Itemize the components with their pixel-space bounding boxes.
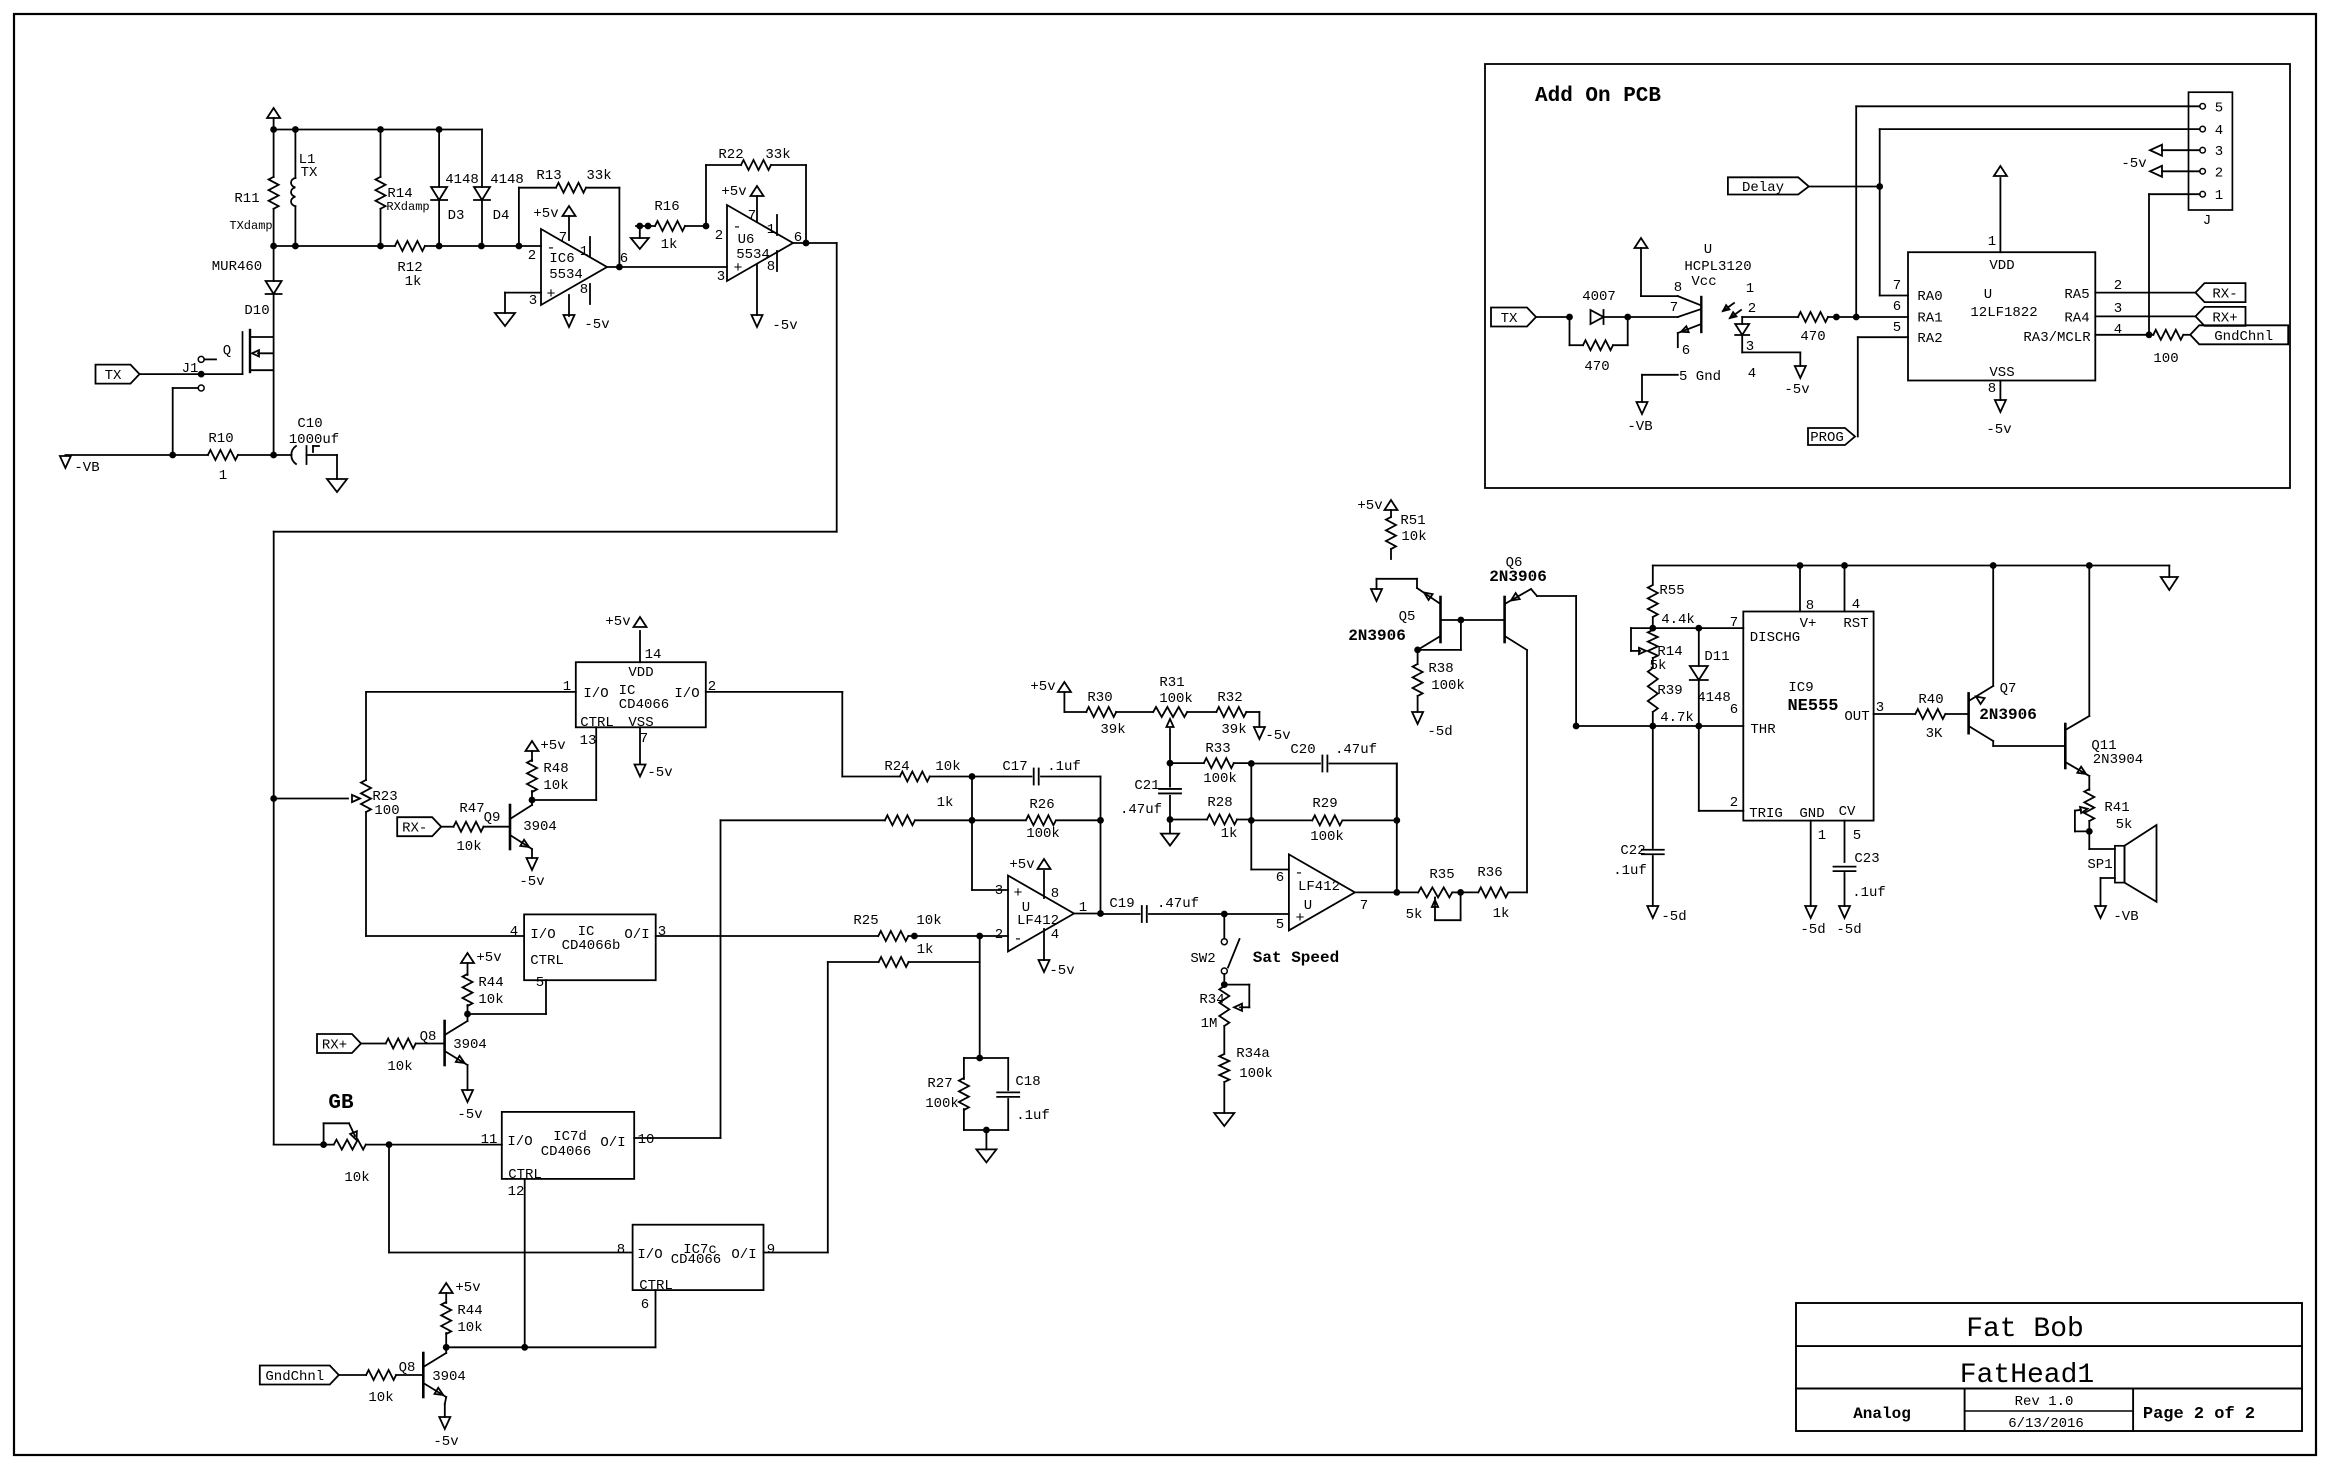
svg-text:33k: 33k xyxy=(586,168,611,184)
svg-text:I/O: I/O xyxy=(530,927,555,943)
svg-text:VSS: VSS xyxy=(1989,365,2014,381)
svg-text:GB: GB xyxy=(328,1092,354,1115)
svg-text:1: 1 xyxy=(580,244,588,260)
svg-text:1k: 1k xyxy=(405,274,422,290)
svg-text:Vcc: Vcc xyxy=(1691,274,1716,290)
svg-text:U: U xyxy=(1304,898,1312,914)
svg-text:R31: R31 xyxy=(1159,675,1184,691)
svg-text:RA4: RA4 xyxy=(2064,311,2089,327)
svg-text:CD4066: CD4066 xyxy=(671,1252,721,1268)
svg-text:6/13/2016: 6/13/2016 xyxy=(2008,1416,2084,1432)
svg-text:THR: THR xyxy=(1750,722,1776,738)
svg-text:10k: 10k xyxy=(387,1059,412,1075)
svg-text:O/I: O/I xyxy=(600,1135,625,1151)
svg-text:7: 7 xyxy=(559,230,567,246)
svg-text:-VB: -VB xyxy=(74,460,99,476)
svg-text:5534: 5534 xyxy=(736,247,770,263)
svg-text:9: 9 xyxy=(767,1242,775,1258)
svg-text:4148: 4148 xyxy=(1697,690,1731,706)
svg-text:Delay: Delay xyxy=(1742,180,1784,196)
svg-text:+: + xyxy=(546,286,555,303)
svg-text:RA0: RA0 xyxy=(1917,289,1942,305)
svg-text:SW2: SW2 xyxy=(1190,951,1215,967)
svg-text:5: 5 xyxy=(1853,828,1861,844)
svg-text:5: 5 xyxy=(2215,100,2223,116)
svg-text:100k: 100k xyxy=(1203,771,1237,787)
svg-text:.47uf: .47uf xyxy=(1120,802,1162,818)
svg-text:4148: 4148 xyxy=(445,172,479,188)
svg-text:4: 4 xyxy=(1852,597,1860,613)
svg-text:-: - xyxy=(1013,931,1022,948)
svg-text:C18: C18 xyxy=(1015,1074,1040,1090)
svg-text:4007: 4007 xyxy=(1582,289,1616,305)
svg-text:-5d: -5d xyxy=(1661,909,1686,925)
svg-text:C19: C19 xyxy=(1109,896,1134,912)
svg-text:8: 8 xyxy=(580,282,588,298)
svg-text:3904: 3904 xyxy=(523,819,557,835)
svg-text:470: 470 xyxy=(1800,329,1825,345)
svg-text:2: 2 xyxy=(2114,278,2122,294)
svg-text:100k: 100k xyxy=(1026,826,1060,842)
svg-text:R51: R51 xyxy=(1400,513,1425,529)
svg-text:R29: R29 xyxy=(1312,796,1337,812)
svg-text:2: 2 xyxy=(995,927,1003,943)
svg-text:TRIG: TRIG xyxy=(1749,806,1783,822)
svg-text:6: 6 xyxy=(1276,870,1284,886)
svg-text:10k: 10k xyxy=(543,778,568,794)
svg-text:5: 5 xyxy=(536,975,544,991)
svg-text:-5v: -5v xyxy=(772,318,797,334)
svg-text:-5v: -5v xyxy=(584,317,609,333)
svg-text:100: 100 xyxy=(2153,351,2178,367)
svg-text:+5v: +5v xyxy=(455,1280,480,1296)
svg-text:R27: R27 xyxy=(927,1076,952,1092)
svg-text:+5v: +5v xyxy=(540,738,565,754)
svg-text:100k: 100k xyxy=(1239,1066,1273,1082)
svg-text:RA5: RA5 xyxy=(2064,287,2089,303)
svg-text:5k: 5k xyxy=(1406,907,1423,923)
svg-text:470: 470 xyxy=(1584,359,1609,375)
svg-text:1k: 1k xyxy=(937,795,954,811)
svg-text:R35: R35 xyxy=(1429,867,1454,883)
svg-text:100k: 100k xyxy=(925,1096,959,1112)
svg-text:4.4k: 4.4k xyxy=(1661,612,1695,628)
svg-text:10k: 10k xyxy=(456,839,481,855)
svg-text:C23: C23 xyxy=(1854,851,1879,867)
svg-text:3: 3 xyxy=(2114,301,2122,317)
svg-text:Add On PCB: Add On PCB xyxy=(1535,85,1661,108)
svg-text:.47uf: .47uf xyxy=(1335,742,1377,758)
svg-text:-5v: -5v xyxy=(457,1107,482,1123)
svg-text:GND: GND xyxy=(1799,806,1824,822)
svg-text:2: 2 xyxy=(2215,165,2223,181)
svg-text:10k: 10k xyxy=(478,992,503,1008)
svg-text:D11: D11 xyxy=(1704,649,1729,665)
svg-text:HCPL3120: HCPL3120 xyxy=(1684,259,1751,275)
svg-text:7: 7 xyxy=(1360,898,1368,914)
svg-text:5534: 5534 xyxy=(549,267,583,283)
svg-text:V+: V+ xyxy=(1800,616,1817,632)
svg-text:-5v: -5v xyxy=(519,874,544,890)
svg-text:+5v: +5v xyxy=(605,614,630,630)
svg-text:Q5: Q5 xyxy=(1399,609,1416,625)
svg-text:R13: R13 xyxy=(536,168,561,184)
svg-text:3: 3 xyxy=(717,269,725,285)
svg-text:CV: CV xyxy=(1839,804,1856,820)
svg-text:7: 7 xyxy=(1893,278,1901,294)
svg-text:3: 3 xyxy=(658,924,666,940)
svg-text:5 Gnd: 5 Gnd xyxy=(1679,369,1721,385)
svg-text:2N3904: 2N3904 xyxy=(2093,752,2143,768)
svg-text:RA2: RA2 xyxy=(1917,331,1942,347)
svg-text:4: 4 xyxy=(510,924,518,940)
svg-text:I/O: I/O xyxy=(674,686,699,702)
svg-text:12LF1822: 12LF1822 xyxy=(1970,305,2037,321)
svg-text:Analog: Analog xyxy=(1853,1405,1911,1423)
svg-text:+5v: +5v xyxy=(1357,498,1382,514)
svg-text:8: 8 xyxy=(1051,886,1059,902)
svg-text:TX: TX xyxy=(1501,311,1518,327)
svg-text:1k: 1k xyxy=(661,237,678,253)
svg-text:6: 6 xyxy=(1730,702,1738,718)
svg-text:I/O: I/O xyxy=(507,1134,532,1150)
svg-text:RX+: RX+ xyxy=(2212,310,2237,326)
svg-text:13: 13 xyxy=(580,733,597,749)
svg-text:+5v: +5v xyxy=(721,184,746,200)
svg-text:Q9: Q9 xyxy=(484,810,501,826)
svg-text:2: 2 xyxy=(715,228,723,244)
svg-text:4: 4 xyxy=(1051,927,1059,943)
svg-text:VDD: VDD xyxy=(1989,258,2014,274)
svg-text:1: 1 xyxy=(767,222,775,238)
svg-text:C21: C21 xyxy=(1134,778,1159,794)
svg-text:C10: C10 xyxy=(297,416,322,432)
svg-text:1: 1 xyxy=(1746,281,1754,297)
svg-text:R41: R41 xyxy=(2104,800,2129,816)
svg-text:1k: 1k xyxy=(1221,826,1238,842)
svg-text:R16: R16 xyxy=(654,199,679,215)
svg-text:2N3906: 2N3906 xyxy=(1489,568,1547,586)
svg-text:2N3906: 2N3906 xyxy=(1348,627,1406,645)
svg-text:RXdamp: RXdamp xyxy=(386,200,429,214)
svg-text:10k: 10k xyxy=(344,1170,369,1186)
svg-text:R36: R36 xyxy=(1477,865,1502,881)
svg-text:-VB: -VB xyxy=(2113,909,2138,925)
svg-text:4: 4 xyxy=(2215,123,2223,139)
svg-text:2N3906: 2N3906 xyxy=(1979,706,2037,724)
svg-text:RX+: RX+ xyxy=(322,1038,347,1054)
svg-text:R11: R11 xyxy=(234,191,259,207)
svg-text:RST: RST xyxy=(1843,616,1868,632)
svg-text:CD4066b: CD4066b xyxy=(562,938,621,954)
svg-text:RX-: RX- xyxy=(2212,287,2237,303)
svg-text:+5v: +5v xyxy=(476,950,501,966)
svg-text:Sat Speed: Sat Speed xyxy=(1253,949,1339,967)
svg-text:TXdamp: TXdamp xyxy=(229,219,272,233)
svg-text:14: 14 xyxy=(645,647,662,663)
svg-text:33k: 33k xyxy=(765,147,790,163)
svg-text:R39: R39 xyxy=(1657,683,1682,699)
svg-text:7: 7 xyxy=(1670,300,1678,316)
svg-text:-5v: -5v xyxy=(1784,382,1809,398)
svg-text:1: 1 xyxy=(1818,828,1826,844)
svg-text:3: 3 xyxy=(2215,144,2223,160)
svg-text:-5v: -5v xyxy=(1986,422,2011,438)
svg-text:RX-: RX- xyxy=(402,821,427,837)
svg-text:C17: C17 xyxy=(1002,759,1027,775)
svg-text:C22: C22 xyxy=(1620,843,1645,859)
svg-text:R40: R40 xyxy=(1918,692,1943,708)
svg-text:TX: TX xyxy=(105,368,122,384)
svg-text:TX: TX xyxy=(301,165,318,181)
svg-text:5k: 5k xyxy=(2116,817,2133,833)
svg-text:GndChnl: GndChnl xyxy=(2214,329,2273,345)
svg-text:2: 2 xyxy=(1748,301,1756,317)
svg-text:10k: 10k xyxy=(457,1320,482,1336)
svg-text:R44: R44 xyxy=(478,975,503,991)
svg-text:6: 6 xyxy=(641,1297,649,1313)
svg-text:VSS: VSS xyxy=(628,715,653,731)
svg-text:PROG: PROG xyxy=(1810,430,1844,446)
svg-text:100k: 100k xyxy=(1159,691,1193,707)
svg-text:R38: R38 xyxy=(1428,661,1453,677)
svg-text:.47uf: .47uf xyxy=(1157,896,1199,912)
svg-text:8: 8 xyxy=(1674,280,1682,296)
svg-text:Q8: Q8 xyxy=(399,1360,416,1376)
svg-text:.1uf: .1uf xyxy=(1047,759,1081,775)
svg-text:R28: R28 xyxy=(1207,795,1232,811)
svg-text:CTRL: CTRL xyxy=(530,953,564,969)
svg-text:8: 8 xyxy=(1988,381,1996,397)
svg-text:1000uf: 1000uf xyxy=(289,432,339,448)
svg-text:Fat Bob: Fat Bob xyxy=(1966,1314,2084,1345)
svg-text:R24: R24 xyxy=(884,759,909,775)
svg-text:7: 7 xyxy=(748,208,756,224)
svg-text:R55: R55 xyxy=(1659,583,1684,599)
svg-text:-5d: -5d xyxy=(1836,922,1861,938)
svg-text:RA3/MCLR: RA3/MCLR xyxy=(2023,330,2091,346)
svg-text:R26: R26 xyxy=(1029,797,1054,813)
svg-text:U6: U6 xyxy=(738,232,755,248)
svg-text:5: 5 xyxy=(1276,917,1284,933)
svg-text:12: 12 xyxy=(508,1184,525,1200)
svg-text:+5v: +5v xyxy=(533,206,558,222)
svg-text:1: 1 xyxy=(219,468,227,484)
svg-text:R47: R47 xyxy=(459,801,484,817)
svg-text:-5v: -5v xyxy=(2121,156,2146,172)
svg-text:1: 1 xyxy=(1988,234,1996,250)
svg-text:MUR460: MUR460 xyxy=(212,259,262,275)
svg-text:39k: 39k xyxy=(1221,722,1246,738)
svg-text:4148: 4148 xyxy=(490,172,524,188)
svg-text:-5v: -5v xyxy=(1049,963,1074,979)
svg-text:NE555: NE555 xyxy=(1787,697,1838,716)
svg-text:CD4066: CD4066 xyxy=(541,1144,591,1160)
svg-text:R10: R10 xyxy=(208,431,233,447)
svg-text:CD4066: CD4066 xyxy=(619,697,669,713)
svg-text:R44: R44 xyxy=(457,1303,482,1319)
svg-text:2: 2 xyxy=(528,248,536,264)
svg-text:1M: 1M xyxy=(1201,1016,1218,1032)
svg-text:.1uf: .1uf xyxy=(1852,885,1886,901)
svg-text:R34a: R34a xyxy=(1236,1046,1270,1062)
svg-text:LF412: LF412 xyxy=(1298,879,1340,895)
svg-text:3: 3 xyxy=(529,293,537,309)
svg-text:3904: 3904 xyxy=(453,1037,487,1053)
svg-text:3K: 3K xyxy=(1926,726,1943,742)
svg-text:8: 8 xyxy=(1806,598,1814,614)
svg-text:R32: R32 xyxy=(1217,690,1242,706)
svg-text:10k: 10k xyxy=(916,913,941,929)
svg-text:4: 4 xyxy=(1748,366,1756,382)
svg-text:DISCHG: DISCHG xyxy=(1750,630,1800,646)
svg-text:.1uf: .1uf xyxy=(1016,1108,1050,1124)
svg-text:-5v: -5v xyxy=(433,1434,458,1450)
svg-text:Q7: Q7 xyxy=(2000,681,2017,697)
svg-text:D3: D3 xyxy=(448,208,465,224)
svg-text:3: 3 xyxy=(995,883,1003,899)
svg-text:OUT: OUT xyxy=(1844,709,1869,725)
svg-text:FatHead1: FatHead1 xyxy=(1960,1360,2094,1391)
svg-text:100: 100 xyxy=(374,803,399,819)
svg-text:R25: R25 xyxy=(853,913,878,929)
svg-text:O/I: O/I xyxy=(731,1247,756,1263)
svg-text:39k: 39k xyxy=(1100,722,1125,738)
svg-text:U: U xyxy=(1704,242,1712,258)
svg-text:3904: 3904 xyxy=(432,1369,466,1385)
svg-text:-5d: -5d xyxy=(1800,922,1825,938)
svg-text:R30: R30 xyxy=(1087,690,1112,706)
svg-text:R22: R22 xyxy=(718,147,743,163)
svg-text:Page 2 of 2: Page 2 of 2 xyxy=(2143,1405,2255,1424)
svg-text:VDD: VDD xyxy=(628,665,653,681)
svg-text:10: 10 xyxy=(638,1132,655,1148)
svg-text:6: 6 xyxy=(1893,299,1901,315)
svg-text:Q: Q xyxy=(223,343,231,359)
svg-text:10k: 10k xyxy=(935,759,960,775)
svg-text:SP1: SP1 xyxy=(2087,857,2112,873)
svg-text:2: 2 xyxy=(1730,795,1738,811)
svg-text:-5d: -5d xyxy=(1427,724,1452,740)
svg-text:R34: R34 xyxy=(1199,992,1224,1008)
svg-text:-5v: -5v xyxy=(1265,728,1290,744)
svg-text:J: J xyxy=(2203,213,2211,229)
svg-text:8: 8 xyxy=(617,1242,625,1258)
svg-text:1k: 1k xyxy=(1493,906,1510,922)
svg-text:11: 11 xyxy=(481,1132,498,1148)
svg-text:6: 6 xyxy=(1682,343,1690,359)
svg-text:Rev 1.0: Rev 1.0 xyxy=(2015,1394,2074,1410)
svg-text:R33: R33 xyxy=(1205,741,1230,757)
svg-text:7: 7 xyxy=(1730,615,1738,631)
svg-text:3: 3 xyxy=(1746,339,1754,355)
svg-text:1: 1 xyxy=(2215,188,2223,204)
svg-text:+5v: +5v xyxy=(1009,857,1034,873)
svg-text:10k: 10k xyxy=(368,1390,393,1406)
svg-text:D4: D4 xyxy=(493,208,510,224)
svg-text:5: 5 xyxy=(1893,320,1901,336)
svg-text:I/O: I/O xyxy=(637,1247,662,1263)
svg-text:D10: D10 xyxy=(244,303,269,319)
svg-text:1k: 1k xyxy=(917,942,934,958)
svg-text:100k: 100k xyxy=(1310,829,1344,845)
svg-text:10k: 10k xyxy=(1401,529,1426,545)
svg-text:IC7d: IC7d xyxy=(553,1129,587,1145)
svg-text:O/I: O/I xyxy=(624,927,649,943)
svg-text:-5v: -5v xyxy=(647,765,672,781)
svg-text:7: 7 xyxy=(640,731,648,747)
svg-text:R48: R48 xyxy=(543,761,568,777)
svg-text:.1uf: .1uf xyxy=(1613,863,1647,879)
svg-text:U: U xyxy=(1984,287,1992,303)
svg-text:+5v: +5v xyxy=(1030,679,1055,695)
svg-text:8: 8 xyxy=(767,259,775,275)
svg-text:RA1: RA1 xyxy=(1917,311,1942,327)
svg-text:IC9: IC9 xyxy=(1788,680,1813,696)
svg-text:I/O: I/O xyxy=(583,686,608,702)
svg-text:4.7k: 4.7k xyxy=(1660,710,1694,726)
svg-text:C20: C20 xyxy=(1290,742,1315,758)
svg-text:IC6: IC6 xyxy=(549,251,574,267)
svg-text:GndChnl: GndChnl xyxy=(265,1369,324,1385)
svg-text:100k: 100k xyxy=(1431,678,1465,694)
svg-text:-VB: -VB xyxy=(1627,419,1652,435)
